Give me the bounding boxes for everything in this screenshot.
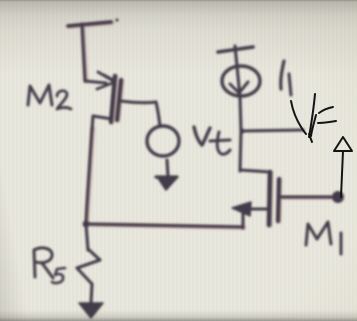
label vt — [194, 127, 230, 154]
current source I1 arrow chevron — [230, 82, 248, 93]
current source I1 wire through — [235, 46, 241, 131]
transistor M2 gate bar — [117, 80, 121, 120]
transistor M1 channel bar — [269, 172, 270, 225]
transistor M2 drain lead — [92, 116, 112, 130]
wire M2 gate to Vt source — [121, 101, 160, 126]
resistor R5 wire and zigzag — [77, 224, 100, 303]
node A junction dot — [83, 221, 90, 228]
VDD rail (top bar, M2 source supply) — [68, 19, 119, 82]
wire output arrow to node dot — [341, 151, 343, 197]
transistor M2 channel bar — [111, 76, 115, 122]
wire M2 drain down to node A — [86, 128, 92, 224]
ground arrow below Vt — [156, 160, 177, 190]
wire node A to M1 source — [86, 209, 243, 228]
wire drain node down to M1 — [240, 131, 241, 171]
chromatic fringe under-layer — [69, 23, 332, 228]
scribble arrow at drain node — [291, 94, 336, 142]
label M1 — [306, 222, 341, 254]
label R5 — [34, 248, 65, 283]
output arrow up triangle — [334, 137, 352, 151]
transistor M1 drain lead — [240, 170, 270, 172]
current source I1 top rail — [218, 47, 253, 52]
crisp digital annotations — [291, 94, 352, 197]
label M2 — [28, 85, 71, 109]
transistor M1 source lead with arrow — [232, 202, 269, 216]
voltage source Vt circle — [147, 126, 179, 156]
current source I1 circle — [222, 66, 260, 96]
transistor M2 source lead with arrow — [85, 72, 115, 89]
wire drain node horizontal — [241, 130, 303, 131]
ground arrow below R5 — [79, 303, 103, 318]
wire M1 gate to output node dot — [281, 195, 331, 198]
transistor M1 gate bar — [278, 179, 279, 221]
label I1 — [281, 61, 291, 95]
output node dot — [332, 191, 344, 203]
